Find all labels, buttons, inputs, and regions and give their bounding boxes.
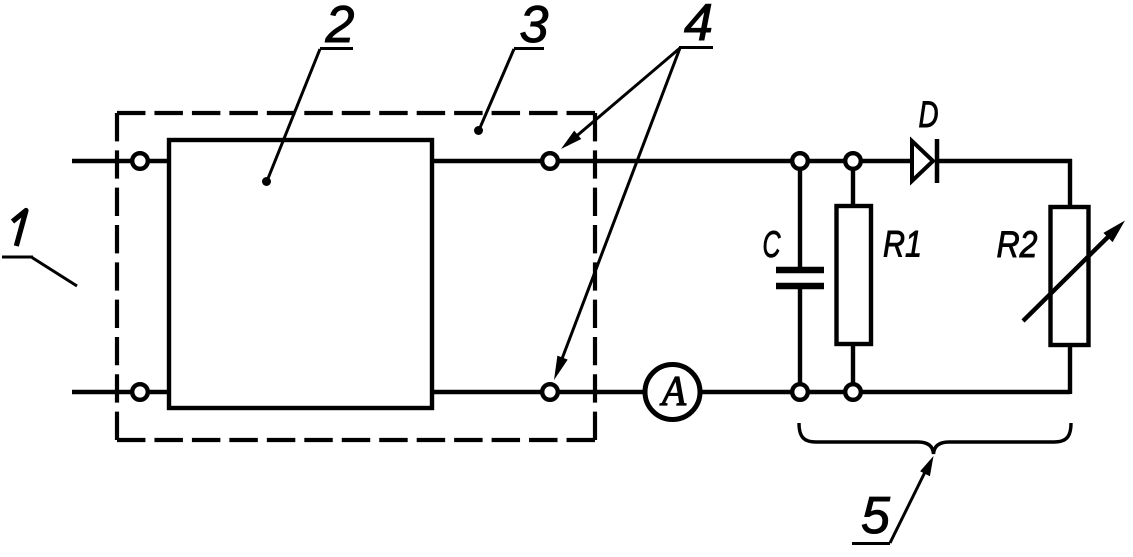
capacitor C plates — [776, 267, 824, 274]
svg-text:R1: R1 — [883, 224, 922, 265]
wire top (diode cathode to right corner) — [935, 159, 1072, 163]
resistor R2 (variable) — [1051, 207, 1089, 345]
resistor R1 — [837, 206, 872, 344]
wire R1 bottom lead — [851, 342, 855, 392]
svg-text:3: 3 — [520, 0, 549, 54]
wire bottom rail — [432, 390, 1070, 394]
block 2 (inner rectangle) — [169, 140, 432, 408]
terminal bottom-left — [132, 384, 148, 400]
svg-text:2: 2 — [325, 0, 355, 54]
svg-text:D: D — [919, 94, 939, 135]
wire top-left input — [72, 159, 169, 163]
node bottom C — [792, 384, 808, 400]
wire R1 top lead — [851, 161, 855, 210]
label 1 — [13, 211, 27, 247]
svg-text:R2: R2 — [997, 224, 1038, 265]
diode D — [912, 141, 933, 181]
node top R1 — [845, 153, 861, 169]
wire capacitor top lead — [798, 161, 802, 268]
brace 5 — [799, 423, 1071, 454]
dashed enclosure box 3 — [117, 111, 595, 115]
wire capacitor bottom lead — [798, 287, 802, 392]
wire bottom-left input — [72, 390, 169, 394]
svg-text:A: A — [659, 369, 686, 415]
terminal top-left — [132, 153, 148, 169]
svg-text:5: 5 — [861, 487, 891, 545]
terminal 4 bottom — [542, 384, 558, 400]
ammeter A — [645, 365, 700, 420]
svg-text:C: C — [763, 224, 781, 265]
node bottom R1 — [845, 384, 861, 400]
wire top (box to diode anode) — [432, 159, 912, 163]
svg-text:4: 4 — [684, 0, 713, 52]
resistor R2 wiper arrow — [1023, 233, 1112, 321]
wire right vertical to R2 top — [1068, 159, 1072, 209]
terminal 4 top — [542, 153, 558, 169]
wire R2 bottom to bottom rail — [1068, 343, 1072, 394]
node top C — [792, 153, 808, 169]
